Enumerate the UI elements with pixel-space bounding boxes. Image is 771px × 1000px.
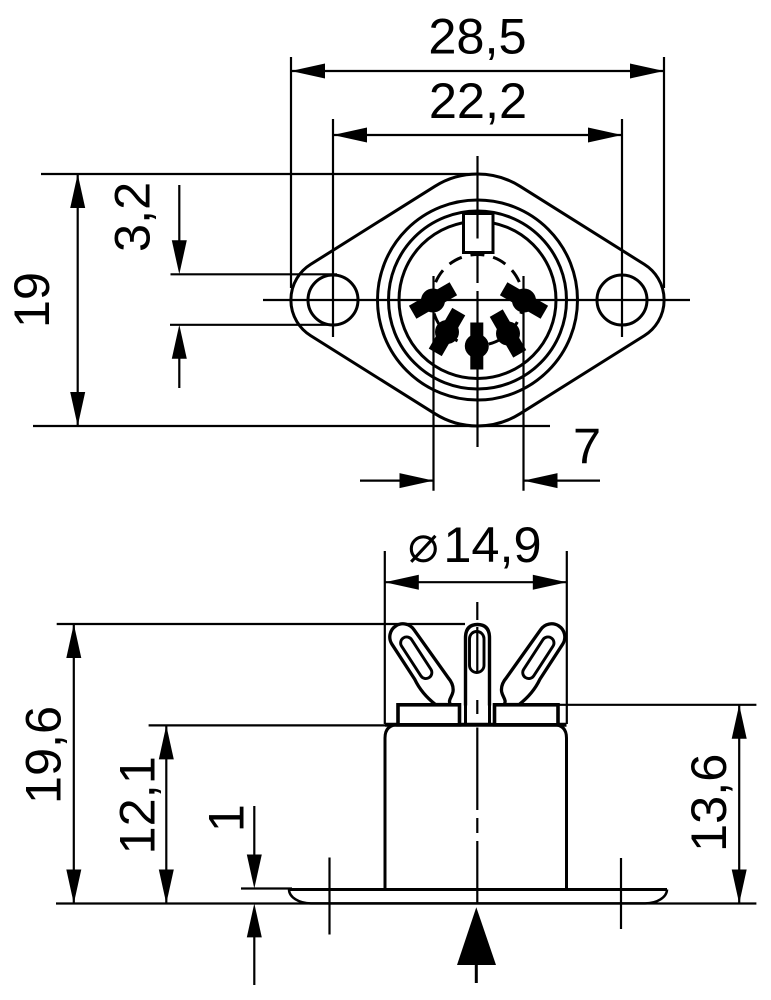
arrowhead 13,6 bottom (732, 870, 747, 904)
mounting hole left (308, 275, 358, 325)
pin 3 (right) (500, 282, 548, 318)
svg-text:22,2: 22,2 (429, 72, 527, 129)
pin 5 (lower-right) (490, 309, 526, 357)
body top edge (thick) (385, 723, 567, 727)
arrowhead 19 top (70, 174, 85, 208)
extension line 28,5 right (663, 57, 665, 288)
extension/centerline hole left (332, 119, 334, 337)
extension line 19 top (41, 173, 480, 175)
extension line 13,6 top (557, 704, 756, 706)
pin circle dashed (432, 255, 523, 346)
extension line 7 left (through pin) (432, 276, 434, 491)
dimension text 13,6 (rotated) (680, 754, 737, 852)
dimension line 13,6 (738, 705, 740, 904)
flange plate top edge (289, 888, 667, 891)
mounting hole right (597, 275, 647, 325)
collar right (495, 705, 559, 725)
vertical centerline side view (476, 602, 478, 903)
arrowhead 14,9 right (533, 575, 567, 590)
arrowhead 19 bottom (70, 392, 85, 426)
arrowhead 1 down (247, 855, 262, 889)
svg-text:19,6: 19,6 (15, 706, 72, 804)
extension line dia 14,9 left (384, 551, 386, 724)
arrow stem (475, 965, 478, 983)
dimension line 28,5 (291, 70, 664, 72)
svg-text:7: 7 (573, 418, 601, 475)
arrowhead 3,2 up (172, 325, 187, 359)
extension line 7 right (through pin) (522, 276, 524, 491)
flange plate (289, 890, 667, 904)
arrowhead 12,1 top (159, 725, 174, 759)
svg-text:14,9: 14,9 (443, 516, 541, 573)
extension line 28,5 left (290, 57, 292, 288)
bottom reference line (56, 902, 756, 904)
dimension text 1 (rotated) (197, 804, 254, 832)
extension line 3,2 bottom (170, 324, 338, 326)
dimension leader 1 lower (253, 936, 255, 985)
arrowhead 28,5 left (291, 64, 325, 79)
center lug sides below collar top (464, 706, 467, 724)
solder lug center (466, 625, 490, 706)
arrowhead 7 left (400, 473, 434, 488)
vertical centerline top view (476, 156, 478, 447)
insertion direction arrow (457, 907, 496, 965)
center lug slot (470, 632, 485, 673)
extension line dia 14,9 right (566, 551, 568, 724)
dimension line 19,6 (73, 624, 75, 904)
dimension text 19 (rotated) (3, 272, 60, 328)
solder lug left (390, 624, 453, 705)
arrowhead 19,6 bottom (66, 870, 81, 904)
hole position mark right (620, 858, 622, 929)
arrowhead 14,9 left (385, 575, 419, 590)
extension line 12,1 top (149, 724, 385, 726)
arrowhead 12,1 bottom (159, 870, 174, 904)
svg-text:3,2: 3,2 (103, 182, 160, 252)
arrowhead 7 right (524, 473, 558, 488)
dimension leader 3,2 upper (178, 185, 180, 245)
flange outline (291, 174, 664, 426)
svg-text:12,1: 12,1 (108, 756, 165, 854)
dimension line 7 left tail (360, 480, 434, 482)
arrowhead 22,2 left (333, 128, 367, 143)
svg-text:1: 1 (197, 804, 254, 832)
horizontal centerline top view (263, 299, 690, 301)
arrowhead 3,2 down (172, 240, 187, 274)
extension line 3,2 top (171, 273, 338, 275)
dimension line dia 14,9 (385, 581, 567, 583)
extension line 19,6 top (57, 623, 465, 625)
barrel inner circle (399, 222, 556, 379)
arrowhead 22,2 right (588, 128, 622, 143)
barrel middle circle (389, 211, 567, 389)
pin 1 (left) (409, 282, 457, 318)
svg-text:28,5: 28,5 (428, 8, 526, 65)
dimension text 19,6 (rotated) (15, 706, 72, 804)
dimension line 12,1 (165, 725, 167, 903)
extension/centerline hole right (621, 119, 623, 337)
body outline (385, 725, 567, 890)
hole position mark left (328, 858, 330, 935)
extension line 19 bottom (33, 425, 550, 427)
diameter symbol (411, 537, 435, 561)
dimension line 7 right tail (524, 480, 601, 482)
svg-text:13,6: 13,6 (680, 754, 737, 852)
pin 4 (lower-left) (429, 308, 465, 356)
extension line 1 top (241, 887, 292, 889)
arrowhead 19,6 top (66, 624, 81, 658)
dimension leader 1 upper (253, 806, 255, 858)
dimension line 22,2 (333, 134, 622, 136)
key notch (464, 214, 494, 253)
dimension leader 3,2 lower (178, 355, 180, 388)
dimension text 3,2 (rotated) (103, 182, 160, 252)
pin 2 (bottom) (465, 323, 489, 370)
arrowhead 28,5 right (630, 64, 664, 79)
svg-text:19: 19 (3, 272, 60, 328)
barrel outer circle (378, 200, 578, 400)
solder lug right (501, 624, 564, 705)
arrowhead 13,6 top (732, 705, 747, 739)
dimension text 12,1 (rotated) (108, 756, 165, 854)
arrowhead 1 up (247, 903, 262, 937)
collar left (398, 705, 460, 725)
dimension line 19 (77, 174, 79, 426)
